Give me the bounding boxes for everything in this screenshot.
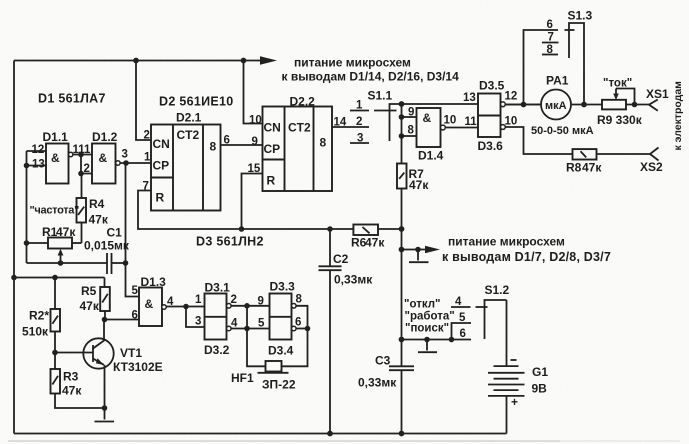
meter PA1: [505, 74, 602, 138]
switch S1.3: [524, 9, 593, 105]
wire D1.2 out to D2.1 CP: [120, 162, 151, 164]
wire D2.2 out 8 to S1.1 pin2: [332, 126, 369, 128]
node out2 junction: [244, 303, 250, 309]
node C3 bottom rail junction: [399, 431, 405, 437]
resistor R5: [80, 284, 110, 320]
node D1.3 out junction: [183, 304, 189, 310]
wire to R5 top: [104, 278, 106, 288]
power arrow VDD питание микросхем: [260, 56, 277, 65]
buzzer HF1: [231, 361, 296, 392]
scan artifact streak: [8, 440, 560, 442]
resistor R7: [397, 164, 429, 193]
wire D1.1 pin 12: [27, 150, 47, 152]
wire D3.6 out 10 to R8: [505, 127, 572, 154]
op-amp gate D1.2: [92, 130, 128, 184]
node wiper junction: [58, 260, 64, 266]
node top rail junction to D2.1 CN: [133, 58, 139, 64]
node C1 right junction: [123, 260, 129, 266]
resistor R1 potentiometer: [27, 225, 82, 263]
scan noise overlay: [0, 0, 1, 1]
counter D2.2: [248, 95, 333, 192]
counter D2.1: [143, 111, 221, 211]
inverter D3.3 D3.4: [268, 280, 303, 358]
capacitor C3: [358, 354, 414, 434]
switch S1.2 wire: [402, 339, 472, 341]
wire left rail: [13, 61, 15, 434]
node ground branch junction: [424, 337, 430, 343]
resistor R2: [22, 309, 60, 353]
node R1 left junction: [24, 240, 30, 246]
wire D1.4 out to D3.6 pin11: [445, 127, 478, 129]
node main vertical S1.2 junction: [399, 337, 405, 343]
resistor R4: [77, 174, 109, 244]
wire D2.2 pin10 CN drop: [244, 61, 263, 124]
wire junction to D3.2 pin3: [186, 307, 205, 328]
resistor R6: [351, 225, 402, 250]
connector XS2: [640, 148, 663, 175]
capacitor C1: [84, 226, 130, 275]
node R2 top junction: [52, 275, 58, 281]
power arrow VSS питание микросхем: [399, 235, 611, 265]
node reset net junction pin15: [239, 226, 245, 232]
op-amp gate D1.4: [408, 107, 457, 163]
transistor VT1: [55, 320, 163, 409]
wire D3.3 out 8 down: [296, 306, 307, 329]
node R9 wiper junction: [632, 102, 638, 108]
node top rail junction to D2.2 CN: [241, 58, 247, 64]
wire main vertical upper: [401, 104, 403, 164]
op-amp gate D1.3: [132, 275, 175, 326]
wire junction vertical and HF1 left: [247, 306, 266, 367]
node S1.3 branch junction: [521, 102, 527, 108]
wire feedback vertical to C1 and D1.3 pin5: [126, 163, 140, 297]
inverter D3.5 D3.6: [463, 79, 517, 154]
switch S1.2: [451, 283, 510, 340]
resistor R9 potentiometer: [597, 78, 649, 128]
wire D2.1 pin2 CN drop: [136, 61, 151, 141]
wire oscillator left rail: [26, 151, 28, 263]
node C2 bottom rail junction: [327, 431, 333, 437]
wire R2 drop: [54, 278, 56, 310]
base divider net: [14, 277, 105, 279]
node out6 junction: [305, 326, 311, 332]
node pin5 branch junction: [449, 337, 455, 343]
wire D2.1 pin7 R to reset net: [138, 191, 353, 230]
wire main vertical middle: [401, 189, 403, 367]
node D1.4 pin9 junction: [399, 114, 405, 120]
wire D3.5 out 12 to meter: [505, 104, 541, 106]
wire D3.1 out to D3.3 in: [231, 305, 269, 307]
wire D1.1 out to D1.2 in: [73, 154, 92, 156]
ground at S1.2: [418, 340, 437, 353]
node pin13 junction: [24, 163, 30, 169]
wire D1.4 pin9: [402, 116, 417, 118]
wire D1.4 pin8: [402, 135, 417, 137]
node emitter junction: [102, 405, 108, 411]
node left rail base junction: [11, 275, 17, 281]
wire D2.2 pin15 R: [242, 174, 263, 230]
wire top +9V rail: [14, 60, 262, 62]
node meter right junction: [581, 102, 587, 108]
ground at VSS arrow: [409, 247, 429, 263]
capacitor C2: [319, 229, 374, 434]
node D1.4 pin8 junction: [399, 133, 405, 139]
wire bottom rail: [14, 433, 507, 435]
node D1.1 out junction: [78, 152, 84, 158]
battery G1: [488, 300, 548, 434]
node D1.2 out junction: [123, 160, 129, 166]
node base junction: [52, 350, 58, 356]
switch S1.1: [350, 89, 402, 145]
node out4 junction: [244, 326, 250, 332]
node reset net junction C2: [327, 226, 333, 232]
wire wiper line to C1: [27, 262, 108, 264]
ground at emitter: [95, 408, 115, 422]
wire D3.2 out to D3.4 in: [231, 328, 269, 330]
connector XS1: [646, 87, 669, 111]
node collector junction: [102, 317, 108, 323]
op-amp gate D1.1: [32, 130, 73, 184]
node pin2 junction: [78, 171, 84, 177]
wire D3.4 out 6: [296, 328, 307, 330]
resistor R8: [566, 149, 650, 174]
wire D1.3 out to D3.1: [166, 306, 204, 308]
node R6 junction: [399, 226, 405, 232]
wire D2.1 out 6 to D2.2 CP 9: [221, 144, 263, 146]
wire collector net to D1.3 pin6: [105, 319, 140, 321]
wire D1.1 pin 13: [27, 165, 47, 167]
inverter D3.1 D3.2: [204, 281, 238, 358]
resistor R3: [51, 353, 105, 409]
wire junction down to pin2: [81, 155, 92, 174]
wire to D3.5 pin13: [402, 103, 479, 105]
wire to HF1 right: [282, 329, 308, 367]
node main vertical top junction: [399, 101, 405, 107]
